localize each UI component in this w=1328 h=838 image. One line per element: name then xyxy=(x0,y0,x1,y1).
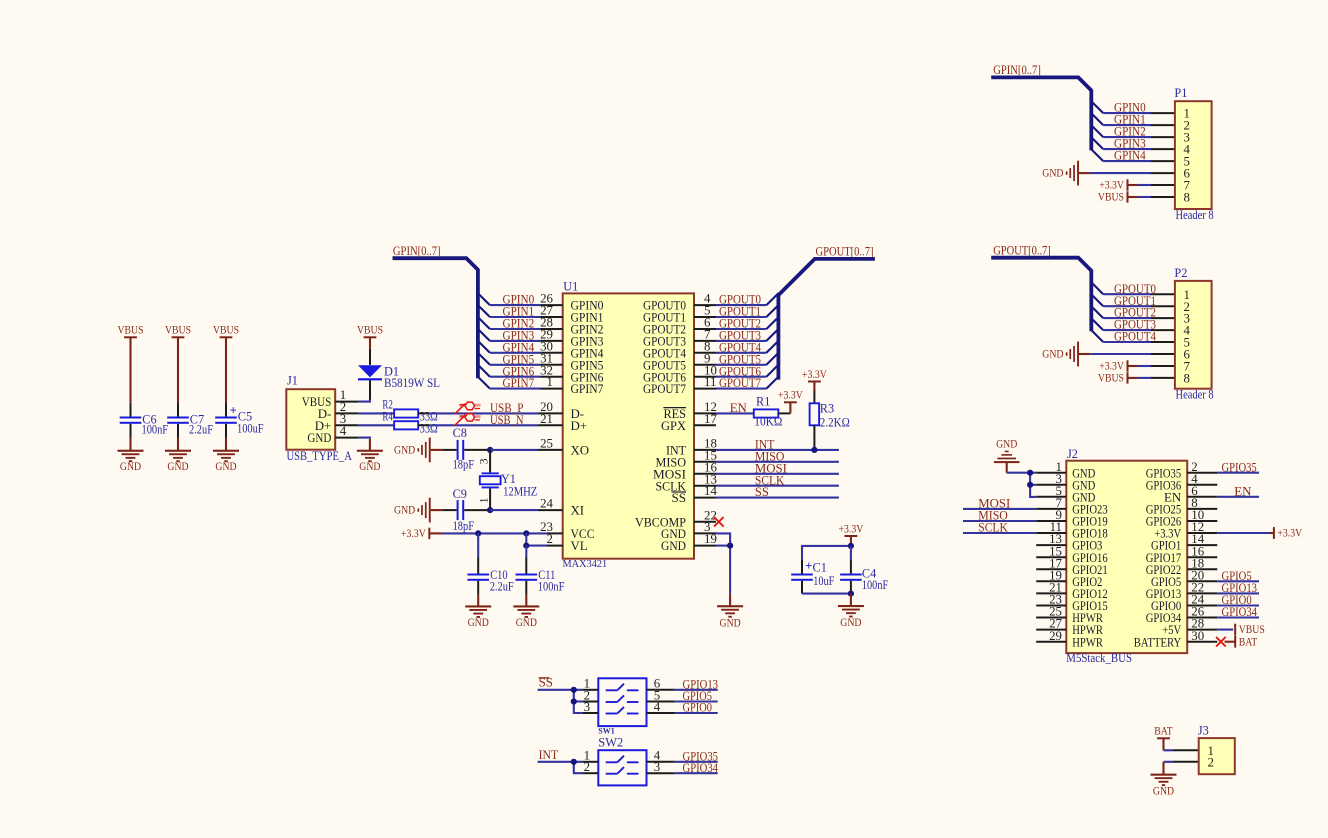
svg-text:GND: GND xyxy=(394,505,415,517)
wire J1 pin1 to D1 xyxy=(358,399,370,402)
wire GPIN5 at U1 xyxy=(478,352,541,366)
svg-text:C1: C1 xyxy=(813,561,827,575)
capacitor C9 xyxy=(443,487,491,533)
svg-text:VL: VL xyxy=(571,539,588,553)
node INT label xyxy=(539,748,559,762)
wire XI xyxy=(490,509,538,511)
power port VBUS at C7 xyxy=(165,324,191,403)
wire GPOUT1 at U1 xyxy=(716,305,778,319)
ground at C8 xyxy=(394,438,443,463)
wire GPOUT3 at P2 xyxy=(1091,318,1175,332)
wire 3v3 P2 pin7 xyxy=(1138,365,1175,367)
bus GPIN[0..7] at P1 xyxy=(991,63,1091,150)
svg-text:GND: GND xyxy=(120,461,141,473)
svg-text:BAT: BAT xyxy=(1154,725,1173,738)
svg-text:SCLK: SCLK xyxy=(978,521,1008,535)
svg-text:GND: GND xyxy=(996,439,1017,451)
svg-text:GPOUT7: GPOUT7 xyxy=(719,376,761,390)
junction VL xyxy=(523,543,529,549)
diff pair marker USB_N xyxy=(455,414,481,426)
svg-text:+3.3V: +3.3V xyxy=(778,389,803,402)
svg-text:+3.3V: +3.3V xyxy=(401,527,426,540)
svg-text:VBUS: VBUS xyxy=(165,324,191,337)
power port VBUS at C5 xyxy=(213,324,239,403)
svg-text:GND: GND xyxy=(516,617,537,629)
svg-text:XO: XO xyxy=(571,444,590,458)
bus GPOUT[0..7] at P2 xyxy=(991,244,1091,332)
wire USB_N xyxy=(430,413,538,427)
wire GND pin19 xyxy=(716,546,730,594)
svg-text:J1: J1 xyxy=(287,374,298,388)
wire SCLK at J2 xyxy=(963,521,1036,535)
power port +3.3V at C4 xyxy=(839,522,864,546)
connector P1 xyxy=(1174,86,1213,222)
svg-text:HPWR: HPWR xyxy=(1072,635,1103,649)
wire GPIO35 at SW2 xyxy=(675,749,718,763)
junction XI xyxy=(487,507,493,513)
svg-text:100nF: 100nF xyxy=(142,423,169,437)
wire SCLK at U1 xyxy=(716,473,839,487)
svg-text:10uF: 10uF xyxy=(813,574,834,588)
svg-text:INT: INT xyxy=(539,748,559,762)
wire GPIO5 at J2 xyxy=(1217,569,1259,583)
ground at U1 xyxy=(717,594,743,630)
svg-text:GND: GND xyxy=(1042,348,1063,360)
wire GPIO34 at SW2 xyxy=(675,761,719,775)
svg-text:GND: GND xyxy=(1153,786,1174,798)
junction SW1 pin1 xyxy=(571,687,577,693)
wire GPIO13 at J2 xyxy=(1217,581,1259,595)
svg-text:+: + xyxy=(805,559,812,573)
wire GPOUT4 at P2 xyxy=(1091,330,1175,344)
svg-text:8: 8 xyxy=(1184,191,1190,205)
svg-text:J2: J2 xyxy=(1067,447,1078,461)
svg-text:VBUS: VBUS xyxy=(1098,191,1124,204)
junction INT at R3 xyxy=(811,447,817,453)
switch SW1 xyxy=(583,677,675,736)
connector P2 xyxy=(1174,266,1213,402)
svg-text:100uF: 100uF xyxy=(237,422,264,436)
svg-text:SS: SS xyxy=(672,491,687,505)
wire INT xyxy=(716,438,839,452)
svg-text:8: 8 xyxy=(1184,372,1190,386)
wire MOSI at U1 xyxy=(716,461,839,475)
capacitor C1 xyxy=(791,559,834,593)
ground at J2 xyxy=(994,439,1020,473)
power port BAT at J3 xyxy=(1154,725,1173,751)
svg-text:Header 8: Header 8 xyxy=(1176,388,1214,402)
power port +3.3V at VCC xyxy=(401,527,443,540)
svg-text:1: 1 xyxy=(479,497,491,503)
power port +3.3V at P2 xyxy=(1099,360,1138,373)
wire GPIO34 at J2 xyxy=(1217,605,1259,619)
wire SS at U1 xyxy=(716,485,839,499)
resistor R3 xyxy=(810,391,850,450)
svg-text:GND: GND xyxy=(720,617,741,629)
capacitor C8 xyxy=(443,426,491,471)
wire GPOUT4 at U1 xyxy=(716,340,778,354)
junction C4 top xyxy=(848,543,854,549)
power port VBUS at C6 xyxy=(117,324,143,403)
capacitor C4 xyxy=(840,546,888,594)
capacitor C10 xyxy=(467,533,513,594)
svg-text:30: 30 xyxy=(1191,629,1204,643)
wire SS to SW1 xyxy=(538,690,583,713)
svg-text:GND: GND xyxy=(215,461,236,473)
diode D1 xyxy=(358,349,440,400)
ground at C7 xyxy=(165,438,191,473)
power port VBUS at J2 xyxy=(1234,623,1265,636)
svg-text:C9: C9 xyxy=(453,487,467,501)
wire GPOUT3 at U1 xyxy=(716,329,778,343)
svg-text:B5819W SL: B5819W SL xyxy=(384,376,440,390)
svg-text:M5Stack_BUS: M5Stack_BUS xyxy=(1066,651,1132,665)
connector J2 xyxy=(1036,447,1217,665)
svg-text:33Ω: 33Ω xyxy=(420,421,438,435)
svg-text:GPIO34: GPIO34 xyxy=(1222,605,1258,619)
svg-text:XI: XI xyxy=(571,504,585,518)
svg-text:GPIN[0..7]: GPIN[0..7] xyxy=(393,244,441,258)
power port +3.3V at R3 xyxy=(802,368,827,391)
svg-text:VBUS: VBUS xyxy=(117,324,143,337)
svg-text:GND: GND xyxy=(167,461,188,473)
no-connect VBCOMP xyxy=(714,517,724,527)
wire 3v3 at J2 xyxy=(1217,532,1270,534)
power port VBUS at P2 xyxy=(1098,372,1138,385)
wire GPOUT7 at U1 xyxy=(716,376,778,390)
svg-text:10KΩ: 10KΩ xyxy=(754,415,782,429)
power port +3.3V at R1 xyxy=(778,389,803,414)
svg-text:J3: J3 xyxy=(1198,723,1209,737)
junction C11 xyxy=(523,530,529,536)
wire J1 pin4 to GND xyxy=(358,438,370,439)
svg-text:2.2uF: 2.2uF xyxy=(189,423,213,437)
ground at C4 xyxy=(838,594,864,630)
svg-text:VBUS: VBUS xyxy=(357,324,383,337)
svg-text:100nF: 100nF xyxy=(538,579,565,593)
resistor R2 xyxy=(382,397,437,423)
svg-text:GPIN4: GPIN4 xyxy=(1114,149,1146,163)
svg-text:12MHZ: 12MHZ xyxy=(503,484,537,498)
svg-text:VBUS: VBUS xyxy=(213,324,239,337)
node SS label xyxy=(539,676,553,690)
wire GPOUT6 at U1 xyxy=(716,364,778,378)
wire GPOUT0 at U1 xyxy=(716,293,778,307)
junction J2 pin1 xyxy=(1027,470,1033,476)
svg-text:+3.3V: +3.3V xyxy=(839,522,864,535)
capacitor C11 xyxy=(516,546,565,595)
svg-text:GPIN7: GPIN7 xyxy=(571,382,604,396)
junction XO xyxy=(487,447,493,453)
svg-text:GND: GND xyxy=(1042,168,1063,180)
ground at J1 xyxy=(357,439,383,473)
svg-text:GPOUT[0..7]: GPOUT[0..7] xyxy=(993,244,1051,258)
svg-text:R4: R4 xyxy=(382,409,393,423)
svg-text:SW1: SW1 xyxy=(598,725,615,735)
svg-text:+3.3V: +3.3V xyxy=(802,368,827,381)
svg-text:EN: EN xyxy=(730,401,748,415)
svg-text:GPIO34: GPIO34 xyxy=(683,761,719,775)
wire GPOUT0 at P2 xyxy=(1091,282,1175,296)
svg-text:GPOUT[0..7]: GPOUT[0..7] xyxy=(816,245,874,259)
svg-text:GPOUT7: GPOUT7 xyxy=(643,382,686,396)
bus GPOUT[0..7] xyxy=(778,245,875,380)
junction SW2 pin1 xyxy=(571,759,577,765)
wire GPIN1 at P1 xyxy=(1091,113,1175,127)
wire XO xyxy=(490,449,538,451)
svg-text:C8: C8 xyxy=(453,426,467,440)
svg-text:18pF: 18pF xyxy=(453,519,475,533)
svg-text:GND: GND xyxy=(359,461,380,473)
svg-text:+: + xyxy=(230,404,237,418)
wire GPIN3 at U1 xyxy=(478,329,541,343)
connector J3 xyxy=(1198,723,1235,774)
svg-text:GPIO0: GPIO0 xyxy=(683,701,713,715)
svg-text:U1: U1 xyxy=(563,280,578,294)
wire C1 top xyxy=(802,546,851,560)
svg-text:2: 2 xyxy=(1208,755,1214,769)
wire INT to SW2 xyxy=(538,762,583,773)
switch SW2 xyxy=(583,735,675,785)
power port VBUS at D1 xyxy=(357,324,383,349)
resistor R4 xyxy=(382,409,437,435)
wire C1 bottom xyxy=(802,593,851,595)
svg-text:2.2uF: 2.2uF xyxy=(490,579,514,593)
svg-text:SW2: SW2 xyxy=(598,735,623,749)
capacitor C5 xyxy=(215,402,264,438)
connector J1 xyxy=(286,374,358,463)
wire GPIO0 at J2 xyxy=(1217,593,1259,607)
wire GPIO35 at J2 xyxy=(1217,460,1259,474)
svg-text:GPIO35: GPIO35 xyxy=(1222,460,1257,474)
wire GPIN0 at U1 xyxy=(478,293,541,307)
svg-text:GPOUT4: GPOUT4 xyxy=(1114,330,1156,344)
wire GPIN4 at U1 xyxy=(478,340,541,354)
ground at J3 xyxy=(1151,762,1177,798)
svg-text:BAT: BAT xyxy=(1239,635,1258,648)
svg-text:+3.3V: +3.3V xyxy=(1277,527,1302,540)
svg-text:GND: GND xyxy=(840,617,861,629)
wire GPIN3 at P1 xyxy=(1091,137,1175,151)
svg-text:24: 24 xyxy=(540,497,553,511)
wire J2 gnd pins xyxy=(1007,473,1036,497)
wire GPIN6 at U1 xyxy=(478,364,541,378)
junction SW1 pin2 xyxy=(571,698,577,704)
svg-text:3: 3 xyxy=(654,760,660,774)
ground at C11 xyxy=(513,595,539,630)
wire GND pin3 xyxy=(716,533,730,545)
ground at C6 xyxy=(118,438,144,473)
wire MISO at U1 xyxy=(716,449,839,463)
svg-text:18pF: 18pF xyxy=(453,457,475,471)
power port +3.3V at J2 xyxy=(1270,527,1303,540)
resistor R1 xyxy=(754,395,791,429)
wire MOSI at J2 xyxy=(963,497,1036,511)
svg-text:VBUS: VBUS xyxy=(1239,623,1265,636)
crystal Y1 xyxy=(479,450,538,510)
svg-text:29: 29 xyxy=(1049,629,1062,643)
IC U1 xyxy=(538,280,717,571)
wire GPOUT2 at P2 xyxy=(1091,306,1175,320)
wire GPIO0 at SW1 xyxy=(675,701,718,715)
svg-text:GPX: GPX xyxy=(661,419,687,433)
svg-text:2: 2 xyxy=(584,760,590,774)
wire VL branch xyxy=(526,533,547,545)
junction J2 pin3 xyxy=(1027,482,1033,488)
svg-text:4: 4 xyxy=(654,700,661,714)
svg-text:GND: GND xyxy=(394,444,415,456)
svg-text:3: 3 xyxy=(479,458,491,464)
wire J3 pin2 xyxy=(1164,761,1199,763)
ground at P1 xyxy=(1042,161,1090,186)
diff pair marker USB_P xyxy=(455,402,481,414)
wire gnd P2 pin6 xyxy=(1090,353,1175,355)
wire D- segment xyxy=(358,412,394,414)
wire GPOUT5 at U1 xyxy=(716,352,778,366)
svg-text:P2: P2 xyxy=(1174,266,1187,280)
svg-text:25: 25 xyxy=(540,437,553,451)
svg-text:MAX3421: MAX3421 xyxy=(563,558,608,570)
ground at C10 xyxy=(465,595,491,630)
bus GPIN[0..7] xyxy=(393,244,478,378)
ground at P2 xyxy=(1042,342,1090,367)
wire MISO at J2 xyxy=(963,509,1036,523)
wire GPIN7 at U1 xyxy=(478,376,541,390)
svg-text:EN: EN xyxy=(1234,484,1252,498)
wire EN at R1 xyxy=(716,401,754,415)
svg-text:100nF: 100nF xyxy=(862,578,888,592)
svg-text:GND: GND xyxy=(468,617,489,629)
power port BAT at J2 xyxy=(1225,635,1258,648)
wire vbus P1 pin8 xyxy=(1138,196,1175,198)
wire gnd P1 pin6 xyxy=(1090,172,1175,174)
svg-text:VBUS: VBUS xyxy=(1098,372,1124,385)
no-connect BAT xyxy=(1216,637,1226,647)
wire GPIN1 at U1 xyxy=(478,305,541,319)
svg-text:GND: GND xyxy=(661,539,686,553)
wire GPIN2 at U1 xyxy=(478,317,541,331)
svg-text:GPIN[0..7]: GPIN[0..7] xyxy=(993,63,1041,77)
svg-text:P1: P1 xyxy=(1174,86,1187,100)
capacitor C7 xyxy=(167,402,213,438)
capacitor C6 xyxy=(120,402,169,438)
wire GPIN2 at P1 xyxy=(1091,125,1175,139)
wire USB_P xyxy=(430,401,538,415)
wire VCC rail xyxy=(443,532,547,534)
svg-text:SS: SS xyxy=(755,485,769,499)
wire GPIO5 at SW1 xyxy=(675,689,718,703)
wire GPIO13 at SW1 xyxy=(675,677,718,691)
junction C4 bottom xyxy=(848,591,854,597)
junction C10 xyxy=(475,530,481,536)
svg-text:2.2KΩ: 2.2KΩ xyxy=(820,415,850,429)
power port VBUS at P1 xyxy=(1098,191,1138,204)
wire EN at J2 xyxy=(1217,484,1259,498)
wire GPIN4 at P1 xyxy=(1091,149,1175,163)
wire GPIN0 at P1 xyxy=(1091,101,1175,115)
ground at C9 xyxy=(394,498,443,523)
wire GPOUT2 at U1 xyxy=(716,317,778,331)
svg-text:4: 4 xyxy=(340,424,347,438)
svg-text:BATTERY: BATTERY xyxy=(1134,635,1181,649)
svg-text:R1: R1 xyxy=(756,395,770,409)
svg-text:USB_TYPE_A: USB_TYPE_A xyxy=(287,449,353,463)
svg-text:GPIN7: GPIN7 xyxy=(503,376,535,390)
svg-text:USB_N: USB_N xyxy=(490,413,524,427)
wire VBUS at J2 xyxy=(1217,629,1233,631)
svg-text:Header 8: Header 8 xyxy=(1176,208,1214,222)
wire GPOUT1 at P2 xyxy=(1091,294,1175,308)
wire 3v3 P1 pin7 xyxy=(1138,184,1175,186)
svg-text:D+: D+ xyxy=(571,419,588,433)
svg-text:3: 3 xyxy=(584,700,590,714)
svg-text:R3: R3 xyxy=(820,401,834,415)
wire D+ segment xyxy=(358,424,394,426)
ground at C5 xyxy=(213,438,239,473)
wire J3 pin1 xyxy=(1164,749,1199,751)
wire vbus P2 pin8 xyxy=(1138,377,1175,379)
svg-text:GND: GND xyxy=(307,431,331,445)
junction GND19 xyxy=(727,543,733,549)
power port +3.3V at P1 xyxy=(1099,179,1138,192)
